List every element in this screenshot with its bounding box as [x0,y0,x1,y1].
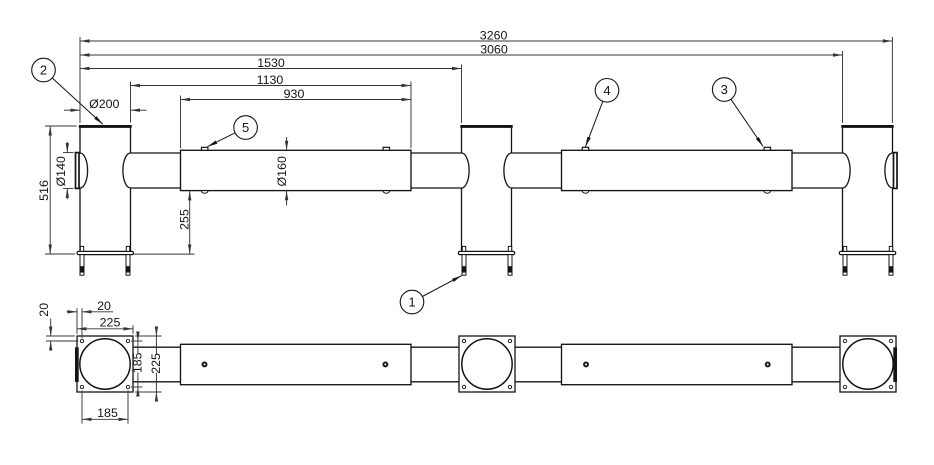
svg-text:185: 185 [131,352,145,373]
svg-text:3060: 3060 [480,42,508,56]
svg-text:1530: 1530 [257,56,285,70]
svg-text:930: 930 [284,87,305,101]
svg-text:3: 3 [721,82,728,97]
svg-text:3260: 3260 [480,28,508,42]
svg-text:Ø200: Ø200 [89,97,119,111]
svg-text:20: 20 [97,299,111,313]
svg-text:Ø160: Ø160 [275,156,289,186]
svg-text:20: 20 [37,303,51,317]
svg-text:4: 4 [603,83,610,98]
svg-text:225: 225 [100,316,121,330]
svg-text:1130: 1130 [257,73,284,87]
svg-text:255: 255 [178,209,192,230]
svg-text:Ø140: Ø140 [54,156,68,186]
svg-text:2: 2 [40,63,47,78]
svg-text:225: 225 [149,353,163,374]
svg-text:5: 5 [242,120,249,135]
svg-text:1: 1 [408,295,415,310]
svg-text:516: 516 [37,180,51,201]
svg-text:185: 185 [97,406,118,420]
